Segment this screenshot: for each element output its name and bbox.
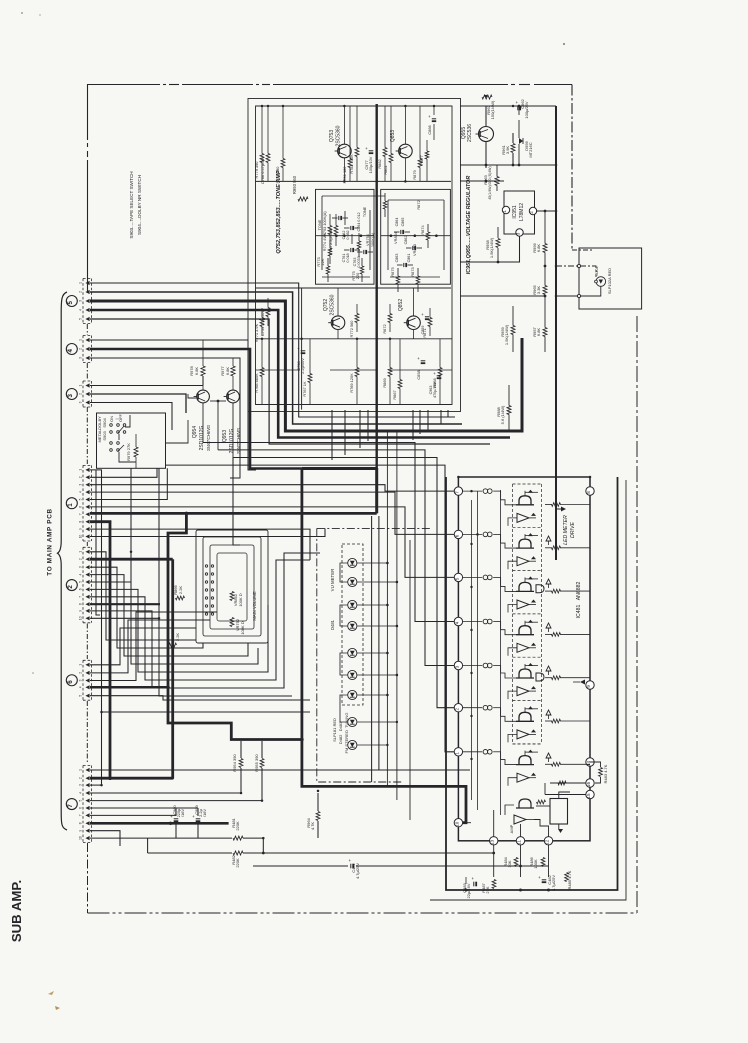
tone amp outer box xyxy=(248,99,461,412)
svg-text:3.9K: 3.9K xyxy=(505,146,510,155)
meter bottom wiring xyxy=(493,845,495,877)
svg-text:4.7µ/25V: 4.7µ/25V xyxy=(355,863,360,879)
thick tone-bus descent and branch xyxy=(302,467,377,470)
svg-text:R782 100K: R782 100K xyxy=(349,154,354,174)
svg-text:R882: R882 xyxy=(377,159,382,168)
svg-text:R767 1K: R767 1K xyxy=(302,381,307,397)
svg-text:6.8K: 6.8K xyxy=(194,367,199,376)
thick center bus of tone amp xyxy=(376,104,378,470)
thick bus x301 down to meter pin10 xyxy=(302,469,466,823)
meter cell 6 xyxy=(519,712,531,721)
svg-text:Q953: Q953 xyxy=(222,430,228,442)
D302 indicator box xyxy=(579,248,642,309)
svg-text:22K: 22K xyxy=(320,258,325,265)
svg-text:4: 4 xyxy=(67,349,74,353)
svg-text:2: 2 xyxy=(78,348,82,350)
LED ladder left wires xyxy=(340,563,348,582)
svg-text:D482 D483: D482 D483 xyxy=(338,721,343,744)
svg-text:R777 330: R777 330 xyxy=(275,166,280,184)
svg-text:R875: R875 xyxy=(390,267,395,276)
svg-text:R779 390: R779 390 xyxy=(254,161,259,179)
lower column wires xyxy=(261,339,263,405)
svg-text:14: 14 xyxy=(586,761,591,767)
svg-text:6: 6 xyxy=(67,680,74,684)
svg-text:AMP: AMP xyxy=(509,824,514,833)
thick bus 5-3 xyxy=(90,301,522,431)
bus 5-2 xyxy=(90,292,462,424)
svg-text:2.2K: 2.2K xyxy=(178,586,183,595)
svg-text:MAIN VOLUME: MAIN VOLUME xyxy=(252,591,257,621)
regulator wiring xyxy=(460,105,556,107)
svg-text:S903: S903 xyxy=(102,431,107,441)
svg-text:2: 2 xyxy=(78,291,82,293)
svg-text:4: 4 xyxy=(78,792,82,794)
transistor Q853 xyxy=(399,144,413,158)
svg-text:R861: R861 xyxy=(383,165,388,174)
LED connection wires xyxy=(357,562,387,564)
svg-text:9: 9 xyxy=(586,685,591,688)
svg-text:SWITCHING: SWITCHING xyxy=(206,424,211,451)
meter outer heavy box B xyxy=(446,477,618,890)
svg-text:+: + xyxy=(471,876,474,881)
wires to D302 xyxy=(556,266,596,277)
meter cell 5 xyxy=(519,669,531,678)
dashed cell columns xyxy=(512,484,514,744)
svg-text:8: 8 xyxy=(78,521,82,523)
svg-text:+: + xyxy=(170,814,173,819)
thick bus conn2 pin2 down xyxy=(90,558,173,561)
main border top (chain line) xyxy=(88,85,573,294)
svg-text:15: 15 xyxy=(586,793,591,799)
svg-text:VR854: VR854 xyxy=(393,231,398,244)
thick bus 4-2 xyxy=(90,349,302,469)
svg-text:3: 3 xyxy=(78,401,82,403)
svg-text:+: + xyxy=(538,875,541,880)
svg-text:3.3K: 3.3K xyxy=(536,286,541,295)
svg-text:1: 1 xyxy=(78,551,82,553)
svg-text:2.2µ/50V: 2.2µ/50V xyxy=(300,358,305,374)
svg-text:1: 1 xyxy=(78,469,82,471)
svg-text:S903.....TAPE SELECT SWITCH: S903.....TAPE SELECT SWITCH xyxy=(129,171,134,238)
svg-text:R872: R872 xyxy=(382,324,387,333)
internal rails xyxy=(471,500,473,800)
svg-text:100K D: 100K D xyxy=(240,621,245,634)
svg-text:7: 7 xyxy=(78,596,82,598)
svg-text:8: 8 xyxy=(78,603,82,605)
svg-text:1: 1 xyxy=(78,384,82,386)
svg-text:4: 4 xyxy=(78,573,82,575)
svg-text:DRIVE: DRIVE xyxy=(570,522,576,538)
svg-text:SUB AMP.: SUB AMP. xyxy=(9,880,24,942)
side triangles xyxy=(546,536,551,541)
svg-text:7: 7 xyxy=(67,804,74,808)
svg-text:C858: C858 xyxy=(416,370,421,379)
svg-text:VR753 100K(A): VR753 100K(A) xyxy=(322,211,327,239)
svg-text:7: 7 xyxy=(454,491,459,494)
svg-text:8: 8 xyxy=(78,822,82,824)
svg-text:100K: 100K xyxy=(533,859,538,869)
svg-text:C764 0.012: C764 0.012 xyxy=(357,212,361,231)
meter input pins xyxy=(454,487,462,495)
svg-text:0.018: 0.018 xyxy=(346,253,350,262)
svg-text:0.0033: 0.0033 xyxy=(357,256,361,267)
svg-text:R993 560: R993 560 xyxy=(292,175,297,194)
svg-text:0.082: 0.082 xyxy=(346,230,350,239)
thick bus conn6 pin4 xyxy=(90,686,168,689)
transistor connection wires tone xyxy=(343,106,345,144)
svg-text:2: 2 xyxy=(78,672,82,674)
svg-text:+: + xyxy=(515,100,518,105)
svg-text:IC951: IC951 xyxy=(512,205,518,219)
svg-text:4: 4 xyxy=(78,309,82,311)
svg-text:100µ/10V: 100µ/10V xyxy=(368,156,373,173)
svg-text:5: 5 xyxy=(454,577,459,580)
svg-text:1: 1 xyxy=(502,210,507,213)
meter cell 3 xyxy=(519,582,531,591)
connector 7 xyxy=(82,766,84,843)
svg-text:C861: C861 xyxy=(407,254,411,263)
thick bus conn2 pin8 xyxy=(90,603,160,605)
meter box A xyxy=(458,477,590,841)
svg-text:6: 6 xyxy=(454,534,459,537)
VU meter dashed box xyxy=(342,544,363,705)
connector 1 xyxy=(82,465,84,541)
svg-text:R768 680K: R768 680K xyxy=(254,373,259,393)
svg-text:IC481 AN6882: IC481 AN6882 xyxy=(576,581,582,618)
meter cell 2 xyxy=(519,539,531,548)
svg-text:2: 2 xyxy=(78,393,82,395)
svg-text:5: 5 xyxy=(78,498,82,500)
svg-text:5: 5 xyxy=(78,695,82,697)
thick bus 5-4 xyxy=(90,310,510,438)
svg-text:5.6 (1/4W): 5.6 (1/4W) xyxy=(500,405,505,424)
svg-text:10: 10 xyxy=(78,535,82,539)
svg-text:L78M12: L78M12 xyxy=(519,203,525,221)
AMP cell wiring xyxy=(520,824,522,837)
svg-text:OFF: OFF xyxy=(118,413,123,422)
IC951 box xyxy=(504,191,535,234)
main volume contacts xyxy=(205,565,207,567)
svg-text:2SC5360: 2SC5360 xyxy=(336,125,342,146)
svg-text:IC951,Q955......VOLTAGE REGULA: IC951,Q955......VOLTAGE REGULATOR xyxy=(466,176,472,275)
tone box mid rails xyxy=(316,235,375,237)
transistor Q954 xyxy=(197,390,210,403)
svg-text:1.5K(1/4W): 1.5K(1/4W) xyxy=(489,237,494,258)
svg-text:R979 27K: R979 27K xyxy=(126,443,131,461)
svg-text:10: 10 xyxy=(78,616,82,620)
svg-text:220K: 220K xyxy=(235,821,240,831)
D302 box edge junction circles xyxy=(577,264,580,267)
pin16/15 left wires xyxy=(550,782,586,784)
tone control sub-box L xyxy=(316,189,375,284)
coupling pairs xyxy=(483,489,488,494)
svg-text:C859: C859 xyxy=(421,326,425,335)
LEDs D482 D483 xyxy=(348,717,357,726)
bus 5-1 xyxy=(90,283,455,417)
wires from switching transistors xyxy=(217,400,220,403)
svg-text:3: 3 xyxy=(454,665,459,668)
svg-text:TO MAIN AMP PCB: TO MAIN AMP PCB xyxy=(47,508,54,575)
bus 3 wires xyxy=(90,385,203,387)
switch S903/S904 box xyxy=(97,413,166,468)
svg-text:100K(A): 100K(A) xyxy=(370,232,375,247)
svg-text:6.8K: 6.8K xyxy=(225,367,230,376)
svg-text:+: + xyxy=(192,814,195,819)
svg-text:Q753: Q753 xyxy=(329,130,335,142)
svg-text:TONE: TONE xyxy=(363,206,367,217)
transistor Q852 xyxy=(407,316,421,330)
svg-text:220: 220 xyxy=(355,272,360,279)
svg-text:+: + xyxy=(433,371,436,376)
svg-text:FM STEREO TUNING: FM STEREO TUNING xyxy=(344,713,349,754)
tone sub-box left channel xyxy=(301,288,303,410)
svg-text:100µ/25V: 100µ/25V xyxy=(524,101,529,119)
pin 8 elbow arrow xyxy=(556,500,562,509)
svg-text:+: + xyxy=(365,146,368,151)
svg-text:16: 16 xyxy=(586,782,591,788)
svg-text:2SD1012G: 2SD1012G xyxy=(199,426,205,451)
svg-text:3: 3 xyxy=(78,566,82,568)
svg-text:6: 6 xyxy=(78,506,82,508)
svg-text:+: + xyxy=(421,312,424,317)
svg-text:1: 1 xyxy=(67,503,74,507)
svg-text:6: 6 xyxy=(78,807,82,809)
svg-text:1: 1 xyxy=(78,339,82,341)
svg-text:SLP181 RED: SLP181 RED xyxy=(332,718,337,742)
tone box internal rails xyxy=(322,195,385,197)
svg-text:C863: C863 xyxy=(395,254,399,263)
svg-text:2: 2 xyxy=(67,585,74,589)
svg-text:4.7K: 4.7K xyxy=(310,822,315,831)
svg-text:R872: R872 xyxy=(416,200,421,209)
svg-text:13: 13 xyxy=(490,839,495,845)
tone amp top rail xyxy=(256,105,453,107)
svg-text:Q852: Q852 xyxy=(398,299,404,311)
svg-text:R873: R873 xyxy=(410,267,415,276)
svg-text:R955 390: R955 390 xyxy=(254,754,259,772)
bus 4-3 xyxy=(90,358,240,478)
meter cell 1 xyxy=(519,496,531,505)
main border bottom chain xyxy=(87,843,89,913)
svg-text:5: 5 xyxy=(78,581,82,583)
svg-text:+: + xyxy=(348,858,351,863)
connector chain column xyxy=(86,324,88,335)
svg-text:1: 1 xyxy=(454,752,459,755)
meter cell 7 xyxy=(519,756,531,765)
svg-text:C864: C864 xyxy=(395,218,399,227)
svg-text:10: 10 xyxy=(78,836,82,840)
svg-text:2: 2 xyxy=(78,558,82,560)
svg-text:100K D: 100K D xyxy=(238,593,243,606)
transistor Q953 xyxy=(227,390,240,403)
meter bottom pins xyxy=(490,837,498,845)
bus 5-5 xyxy=(90,319,490,444)
svg-text:Q954: Q954 xyxy=(192,426,198,438)
svg-text:R769 120K: R769 120K xyxy=(349,373,354,393)
svg-text:C866: C866 xyxy=(427,125,432,134)
svg-text:/16V: /16V xyxy=(202,809,207,817)
svg-text:1: 1 xyxy=(78,664,82,666)
svg-text:2: 2 xyxy=(78,777,82,779)
svg-text:MT216C: MT216C xyxy=(528,142,533,157)
svg-text:C759 2.2µ/50V: C759 2.2µ/50V xyxy=(260,310,265,336)
main border right (chain) xyxy=(571,85,573,251)
svg-text:+: + xyxy=(417,356,420,361)
svg-text:R879: R879 xyxy=(412,170,417,179)
svg-text:3: 3 xyxy=(78,300,82,302)
svg-text:D481: D481 xyxy=(330,619,335,630)
tone control sub-box R xyxy=(381,189,451,284)
connector 4 xyxy=(82,336,84,363)
svg-text:6.8K: 6.8K xyxy=(536,328,541,337)
svg-text:2SC5360: 2SC5360 xyxy=(330,294,336,315)
svg-text:12: 12 xyxy=(545,839,550,845)
svg-text:9: 9 xyxy=(78,610,82,612)
connector 5 xyxy=(82,279,84,324)
svg-text:2: 2 xyxy=(529,211,534,214)
svg-text:45(1/4W)/330 (S(4W): 45(1/4W)/330 (S(4W) xyxy=(488,166,492,199)
VU meter chain outer box xyxy=(317,528,402,782)
transistor Q955 xyxy=(479,127,494,142)
VU LEDs D481 xyxy=(348,558,357,567)
svg-text:4.7µ/25V: 4.7µ/25V xyxy=(551,875,556,891)
svg-text:+: + xyxy=(428,114,431,119)
svg-text:3: 3 xyxy=(516,232,521,235)
junction dots xyxy=(261,105,264,108)
maze wiring xyxy=(130,468,132,582)
main volume nested boxes xyxy=(196,530,268,643)
transistor Q752 xyxy=(331,316,345,330)
thick bus conn1 pin8 to conn7 pin2 xyxy=(90,522,110,779)
svg-text:R771 3.9K: R771 3.9K xyxy=(254,323,259,342)
svg-text:220K: 220K xyxy=(235,858,240,868)
svg-text:5: 5 xyxy=(78,318,82,320)
svg-text:5: 5 xyxy=(78,799,82,801)
thick wire connector7 pin8 xyxy=(90,822,229,825)
pin 9 arrow xyxy=(580,680,585,685)
svg-text:SLP102A RED: SLP102A RED xyxy=(607,268,612,294)
svg-text:1.5K(1/4W): 1.5K(1/4W) xyxy=(504,324,509,345)
svg-text:LED METER: LED METER xyxy=(563,515,569,545)
svg-text:11: 11 xyxy=(517,839,522,844)
svg-text:2: 2 xyxy=(454,707,459,710)
svg-text:470µ/16V: 470µ/16V xyxy=(433,382,437,398)
transistor Q753 xyxy=(338,144,352,158)
bus 4-1 xyxy=(90,340,256,470)
half-circle gates xyxy=(536,585,544,593)
meter cell 4 xyxy=(519,626,531,635)
meter right pins xyxy=(586,487,594,495)
svg-text:C862: C862 xyxy=(404,236,408,245)
svg-text:3: 3 xyxy=(78,784,82,786)
svg-text:S904: S904 xyxy=(102,418,107,428)
svg-text:R877: R877 xyxy=(419,155,424,164)
svg-text:3: 3 xyxy=(67,394,74,398)
svg-text:2SC536: 2SC536 xyxy=(467,124,473,142)
small rect component xyxy=(550,799,568,825)
svg-text:6: 6 xyxy=(78,588,82,590)
svg-text:4: 4 xyxy=(454,621,459,624)
big left curly brace xyxy=(58,292,68,830)
thin outer box xyxy=(430,480,626,900)
connector 3 xyxy=(82,381,84,407)
svg-text:3: 3 xyxy=(78,679,82,681)
connector 2 xyxy=(82,547,84,623)
tone amp inner box xyxy=(256,106,453,405)
svg-text:10: 10 xyxy=(454,821,459,827)
right lower chain border xyxy=(636,316,638,913)
svg-text:Q752: Q752 xyxy=(323,299,329,311)
svg-text:R954 390: R954 390 xyxy=(232,754,237,772)
tone amp internal rails xyxy=(256,180,452,182)
svg-text:S904.....DOLBY NR SWITCH: S904.....DOLBY NR SWITCH xyxy=(137,175,142,235)
svg-text:2: 2 xyxy=(78,476,82,478)
svg-text:4: 4 xyxy=(78,686,82,688)
svg-text:1: 1 xyxy=(78,769,82,771)
svg-text:R874: R874 xyxy=(420,225,425,235)
svg-text:D302: D302 xyxy=(594,266,599,275)
svg-text:C766 0.47µ/50V: C766 0.47µ/50V xyxy=(260,155,265,184)
regulator resistor stubs xyxy=(497,227,499,238)
switch wiring xyxy=(118,434,120,440)
svg-text:7: 7 xyxy=(78,814,82,816)
svg-text:4: 4 xyxy=(78,491,82,493)
svg-text:R483 4.7K: R483 4.7K xyxy=(603,764,608,783)
svg-text:9: 9 xyxy=(78,528,82,530)
svg-text:1: 1 xyxy=(78,282,82,284)
svg-text:7: 7 xyxy=(78,513,82,515)
svg-text:6.8K: 6.8K xyxy=(536,244,541,253)
svg-text:/16V: /16V xyxy=(180,809,185,817)
AMP cell xyxy=(519,799,531,808)
svg-text:5: 5 xyxy=(67,301,74,305)
thick bus to connector1 pin7 xyxy=(90,512,377,515)
svg-text:R869: R869 xyxy=(382,378,387,387)
LED D302 xyxy=(596,277,606,287)
tone amp secondary rails xyxy=(256,404,453,406)
LED feed rails xyxy=(371,516,373,782)
svg-text:150(1/4W): 150(1/4W) xyxy=(490,100,495,119)
LED rails xyxy=(386,430,388,786)
svg-text:C865: C865 xyxy=(401,218,405,227)
svg-text:VU METER: VU METER xyxy=(330,569,335,592)
svg-text:27K: 27K xyxy=(485,886,490,893)
connector 6 xyxy=(82,660,84,700)
svg-text:3: 3 xyxy=(78,357,82,359)
svg-text:3: 3 xyxy=(78,484,82,486)
svg-text:R772 560: R772 560 xyxy=(349,320,354,338)
svg-text:8: 8 xyxy=(586,491,591,494)
svg-text:9: 9 xyxy=(78,830,82,832)
thick bus descent x186 xyxy=(168,513,302,739)
svg-text:R867: R867 xyxy=(392,390,397,399)
